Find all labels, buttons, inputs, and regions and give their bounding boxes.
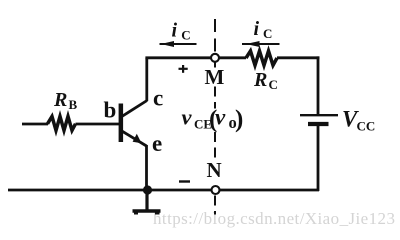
battery VCC [300, 115, 338, 124]
svg-text:): ) [235, 106, 243, 133]
svg-text:https://blog.csdn.net/Xiao_Jie: https://blog.csdn.net/Xiao_Jie123 [153, 209, 395, 228]
arrow iC right [242, 43, 280, 45]
wire bottom [8, 189, 319, 192]
arrow iC left [160, 43, 197, 45]
wire right vertical upper [317, 56, 320, 114]
wire collector riser [145, 58, 148, 101]
svg-text:e: e [152, 131, 162, 156]
svg-text:c: c [153, 86, 163, 111]
svg-text:i: i [172, 20, 178, 42]
svg-text:CC: CC [357, 119, 376, 134]
svg-text:C: C [269, 77, 278, 92]
resistor RC [246, 51, 277, 65]
svg-text:b: b [104, 98, 117, 123]
wire top [145, 56, 246, 59]
resistor RB [48, 116, 76, 130]
plus sign [179, 65, 188, 73]
wire emitter riser [145, 145, 148, 190]
dashed line MN [214, 19, 216, 215]
svg-text:R: R [53, 89, 67, 111]
wire base-right [76, 123, 120, 126]
node N [212, 186, 220, 194]
minus sign [179, 180, 190, 182]
svg-text:N: N [207, 158, 222, 182]
svg-text:R: R [253, 69, 267, 91]
svg-text:v: v [182, 105, 193, 130]
svg-text:C: C [181, 28, 190, 43]
ground [133, 190, 161, 214]
svg-text:C: C [263, 26, 272, 41]
svg-text:i: i [254, 18, 260, 40]
node M [211, 54, 219, 62]
svg-text:v: v [215, 105, 226, 130]
label vCE(vo) [182, 105, 244, 134]
wire base-left [22, 123, 48, 126]
wire top-right [277, 56, 319, 59]
svg-text:B: B [69, 97, 78, 112]
svg-text:M: M [205, 65, 225, 89]
transistor Q1 [119, 101, 147, 147]
junction dot e [143, 185, 152, 194]
wire right vertical lower [317, 124, 320, 191]
